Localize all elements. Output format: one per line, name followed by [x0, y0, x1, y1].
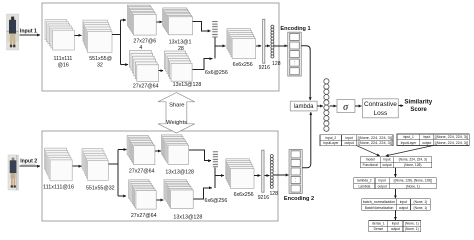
svg-text:Functional: Functional [363, 163, 378, 167]
wire: junction to upper conv (branch 2) [118, 149, 127, 151]
wire: junction riser (branch 2) [117, 150, 119, 197]
contrastive loss box [363, 99, 399, 118]
flatten vector 9216 (branch 2) [262, 150, 264, 192]
encoding 1 vector [288, 32, 301, 76]
conv stack 27x27@64 lower (branch 2) [129, 180, 157, 209]
svg-text:output: output [378, 184, 387, 188]
svg-text:Loss: Loss [374, 110, 388, 117]
svg-text:input: input [346, 136, 353, 140]
conv stack 13x13@128 lower (branch 1) [165, 51, 193, 81]
svg-text:InputLayer: InputLayer [401, 141, 417, 145]
svg-text:@16: @16 [58, 62, 69, 68]
wire: lower 27->13 (branch 1) [159, 70, 164, 72]
svg-text:[(None, 128), (None, 128)]: [(None, 128), (None, 128)] [394, 179, 433, 183]
svg-text:input_1: input_1 [403, 135, 414, 139]
fc layer 128 circles (branch 1) [271, 25, 274, 58]
conv stack 551x55@32 (branch 1) [83, 20, 112, 52]
svg-text:13x13@128: 13x13@128 [173, 214, 202, 220]
svg-text:[(None, 224, 224, 3)]: [(None, 224, 224, 3)] [358, 141, 392, 145]
branch 2 container box [42, 131, 278, 221]
wire: cube to 9216 bar (branch 1) [256, 45, 261, 47]
svg-text:111x111: 111x111 [54, 56, 73, 62]
wire: sigma to contrastive loss [355, 105, 362, 107]
svg-text:Encoding 2: Encoding 2 [284, 196, 314, 202]
svg-text:128: 128 [272, 61, 281, 67]
svg-text:13x13@1: 13x13@1 [169, 39, 192, 45]
conv cube 6x6x256 (branch 2) [226, 159, 254, 189]
svg-text:111x111@16: 111x111@16 [43, 184, 74, 190]
edge: input_1 to model [386, 146, 433, 156]
wire: upper 27->13 (branch 2) [155, 150, 161, 152]
svg-text:(None, 1): (None, 1) [414, 206, 428, 210]
wire: merge to cube (branch 2) [215, 175, 224, 177]
sigma box [337, 100, 355, 113]
wire: upper 13 out (branch 1) [192, 21, 210, 31]
svg-text:Encoding 1: Encoding 1 [280, 26, 310, 32]
svg-text:BatchNormalization: BatchNormalization [365, 206, 394, 210]
svg-text:6x6@256: 6x6@256 [205, 70, 228, 76]
wire: circles to encoding 1 [274, 45, 287, 47]
conv stack 13x13@128 upper (branch 2) [161, 135, 188, 164]
svg-text:input: input [400, 200, 407, 204]
keras node batch_normalization [362, 199, 430, 211]
svg-text:dense_1: dense_1 [372, 222, 385, 226]
svg-text:Dense: Dense [374, 227, 384, 231]
svg-text:13x13@128: 13x13@128 [173, 82, 202, 88]
conv stack 111x111@16 (branch 2) [45, 148, 73, 181]
wire: lower 13 out (branch 1) [192, 59, 212, 70]
edge: batch_normalization to dense_1 [394, 210, 396, 219]
svg-text:(None, 1): (None, 1) [405, 222, 419, 226]
svg-text:input: input [392, 222, 399, 226]
svg-text:551x55@32: 551x55@32 [86, 185, 115, 191]
wire: upper 13 out (branch 2) [189, 150, 211, 161]
svg-text:output: output [345, 141, 354, 145]
svg-text:Input 1: Input 1 [20, 28, 37, 34]
wire: merge to cube (branch 1) [215, 45, 226, 47]
keras node model [360, 157, 431, 168]
wire: junction to lower conv (branch 1) [120, 64, 128, 66]
svg-text:Contrastive: Contrastive [364, 101, 397, 108]
svg-text:[(None, 224, 224, 3)]: [(None, 224, 224, 3)] [358, 136, 392, 140]
svg-text:128: 128 [269, 191, 278, 197]
wire: bar to circles (branch 2) [264, 175, 269, 177]
svg-text:27x27@64: 27x27@64 [131, 213, 157, 219]
conv stack 13x13@128 lower (branch 2) [164, 180, 193, 209]
svg-text:(None, 128): (None, 128) [404, 163, 421, 167]
svg-text:6x6x256: 6x6x256 [234, 192, 254, 198]
edge: lambda_2 to batch_normalization [394, 189, 396, 198]
svg-text:9216: 9216 [258, 195, 269, 201]
encoding 2 vector [289, 150, 302, 194]
wire: upper 27->13 (branch 1) [156, 21, 162, 23]
flatten/merge symbol (branch 1) [212, 21, 218, 38]
input image 1 (person photo) [7, 14, 19, 50]
svg-text:output: output [399, 206, 408, 210]
svg-text:Input 2: Input 2 [20, 159, 37, 165]
wire: loss to similarity score [398, 105, 403, 107]
svg-text:(None, 1): (None, 1) [405, 227, 419, 231]
svg-text:input: input [379, 179, 386, 183]
wire: input 2 arrow [20, 165, 41, 167]
conv stack 27x27@64 lower (branch 1) [130, 50, 159, 81]
svg-text:(None, 224, 224, 3): (None, 224, 224, 3) [399, 158, 427, 162]
wire: bar to circles (branch 1) [265, 45, 270, 47]
svg-text:6x6@256: 6x6@256 [205, 198, 228, 204]
lambda box [290, 101, 317, 111]
svg-text:Share: Share [169, 102, 184, 108]
svg-text:batch_normalization: batch_normalization [363, 200, 396, 204]
svg-text:4: 4 [139, 45, 142, 51]
wire: cube to 9216 bar (branch 2) [254, 175, 260, 177]
conv stack 27x27@64 upper (branch 2) [127, 136, 155, 165]
svg-text:27x27@6: 27x27@6 [133, 39, 156, 45]
edge: input_2 to model [357, 146, 380, 156]
svg-text:13x13@128: 13x13@128 [165, 169, 194, 175]
keras node input_1 [397, 134, 469, 146]
wire: lambda to circle chain [317, 105, 323, 107]
flatten/merge symbol (branch 2) [213, 151, 218, 167]
conv stack 27x27@64 upper (branch 1) [127, 5, 156, 35]
wire: junction riser (branch 1) [119, 20, 121, 65]
svg-text:output: output [382, 163, 391, 167]
keras node input_2 [320, 135, 393, 146]
wire: stack2 to junction (branch 2) [109, 163, 119, 165]
wire: encoding 1 to lambda [301, 46, 310, 100]
wire: lower 13 out (branch 2) [194, 188, 212, 199]
svg-text:(None, 1): (None, 1) [414, 200, 428, 204]
svg-text:InputLayer: InputLayer [323, 141, 339, 145]
flatten vector 9216 (branch 1) [263, 19, 265, 63]
fc layer 128 circles (branch 2) [270, 155, 273, 189]
wire: merge trunk (branch 1) [214, 38, 216, 59]
keras node dense_1 [369, 221, 421, 232]
svg-text:output: output [391, 227, 400, 231]
svg-text:[(None, 224, 224, 3)]: [(None, 224, 224, 3)] [435, 141, 469, 145]
svg-text:lambda_2: lambda_2 [357, 179, 372, 183]
wire: circle chain to sigma [330, 105, 337, 107]
svg-text:6x6x256: 6x6x256 [233, 62, 253, 68]
edge: model to lambda_2 [394, 168, 396, 177]
svg-text:551x55@: 551x55@ [89, 56, 112, 62]
wire: lower 27->13 (branch 2) [157, 199, 164, 201]
svg-text:9216: 9216 [259, 65, 270, 71]
svg-text:[(None, 224, 224, 3)]: [(None, 224, 224, 3)] [435, 135, 469, 139]
wire: stack1->stack2 (branch 1) [75, 34, 82, 36]
svg-text:model: model [366, 158, 375, 162]
wire: junction to upper conv (branch 1) [120, 19, 126, 21]
wire: circles to encoding 2 [274, 174, 289, 176]
conv stack 111x111@16 (branch 1) [45, 20, 74, 50]
conv stack 551x55@32 (branch 2) [82, 149, 108, 181]
embedding circle chain (middle) [324, 79, 329, 132]
svg-text:input: input [423, 135, 430, 139]
svg-text:input: input [383, 158, 390, 162]
input image 2 (person photo) [8, 155, 19, 190]
svg-text:Score: Score [410, 106, 427, 113]
branch 1 container box [42, 3, 279, 91]
keras node lambda_2 [354, 178, 437, 189]
svg-text:Lambda: Lambda [358, 184, 370, 188]
svg-text:Similarity: Similarity [404, 99, 432, 106]
svg-text:(None, 1): (None, 1) [406, 184, 420, 188]
wire: stack1->stack2 (branch 2) [73, 165, 82, 167]
svg-text:output: output [422, 141, 431, 145]
svg-text:27x27@64: 27x27@64 [133, 83, 159, 89]
wire: stack2 to junction (branch 1) [112, 33, 120, 35]
svg-text:lambda: lambda [294, 104, 314, 110]
share weights double arrow [158, 93, 195, 133]
faint caption under Input 2 [21, 163, 36, 166]
conv cube 6x6x256 (branch 1) [227, 29, 256, 59]
wire: junction to lower conv (branch 2) [118, 195, 126, 197]
svg-text:Weights: Weights [166, 120, 187, 126]
svg-text:input_2: input_2 [325, 136, 336, 140]
conv stack 13x13@128 upper (branch 1) [163, 8, 193, 35]
wire: merge trunk (branch 2) [214, 167, 216, 188]
svg-text:32: 32 [97, 62, 103, 68]
wire: encoding 2 to lambda [302, 112, 311, 168]
svg-text:27x27@64: 27x27@64 [129, 168, 155, 174]
wire: input 1 arrow [20, 34, 41, 36]
